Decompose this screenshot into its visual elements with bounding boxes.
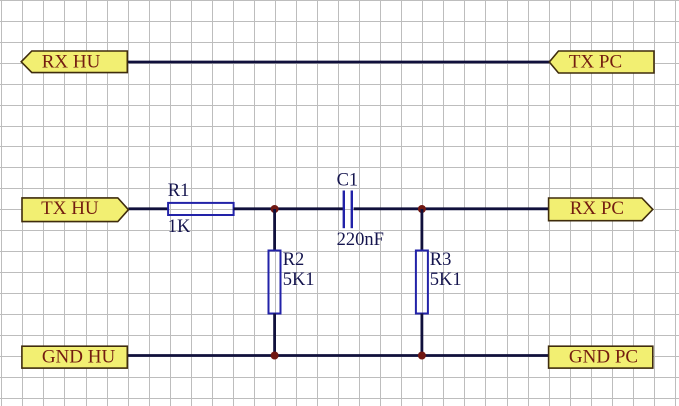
wire node B to R3 xyxy=(420,209,423,251)
resistor R1 xyxy=(168,203,234,215)
svg-text:RX HU: RX HU xyxy=(42,51,101,72)
wire R3 to GND net xyxy=(420,314,423,356)
junction GND right xyxy=(418,352,426,360)
wire C1 to RX PC xyxy=(354,207,549,210)
svg-text:GND HU: GND HU xyxy=(42,346,116,367)
svg-text:1K: 1K xyxy=(168,217,191,237)
wire RX HU to TX PC (net RS232 RX) xyxy=(127,61,550,64)
wire R2 to GND net xyxy=(273,314,276,356)
svg-text:5K1: 5K1 xyxy=(430,270,462,290)
svg-text:GND PC: GND PC xyxy=(569,346,638,367)
svg-text:C1: C1 xyxy=(337,170,359,190)
port TX PC xyxy=(549,51,654,73)
svg-text:5K1: 5K1 xyxy=(283,270,315,290)
port RX HU xyxy=(21,51,127,73)
port TX HU xyxy=(22,198,128,222)
port GND HU xyxy=(22,346,127,368)
junction node A xyxy=(271,205,279,213)
resistor R2 xyxy=(269,251,281,314)
port RX PC xyxy=(549,198,653,221)
wire TX HU to R1 xyxy=(128,207,169,210)
capacitor C1 xyxy=(344,191,352,229)
resistor R3 xyxy=(416,251,428,314)
port GND PC xyxy=(549,346,653,368)
svg-text:TX PC: TX PC xyxy=(569,51,622,72)
wire R1 to C1 xyxy=(234,207,344,210)
junction node B xyxy=(418,205,426,213)
svg-text:R3: R3 xyxy=(430,250,452,270)
svg-text:R2: R2 xyxy=(283,250,305,270)
wire GND HU to GND PC (net GND) xyxy=(127,354,548,357)
junction GND left xyxy=(271,352,279,360)
wire node A to R2 xyxy=(273,209,276,251)
svg-text:RX PC: RX PC xyxy=(570,198,624,219)
svg-text:R1: R1 xyxy=(168,181,190,201)
svg-text:220nF: 220nF xyxy=(337,230,384,250)
svg-text:TX HU: TX HU xyxy=(41,198,99,219)
